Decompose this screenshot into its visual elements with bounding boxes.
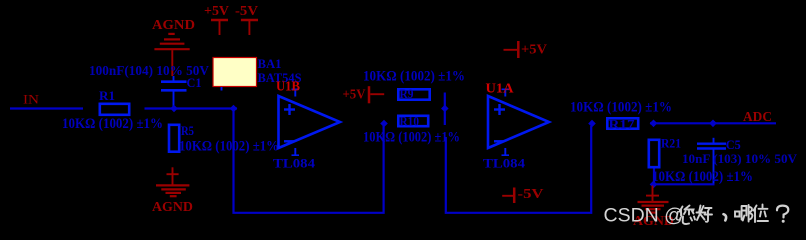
svg-text:10KΩ (1002) ±1%: 10KΩ (1002) ±1% [652, 169, 753, 185]
svg-text:10nF (103) 10% 50V: 10nF (103) 10% 50V [682, 151, 798, 166]
power port AGND (top) [154, 34, 189, 76]
svg-text:10KΩ (1002) ±1%: 10KΩ (1002) ±1% [570, 100, 672, 116]
glyph fullwidth comma [724, 214, 727, 220]
svg-text:TL084: TL084 [273, 155, 316, 170]
power port AGND (bottom right) [638, 186, 669, 213]
svg-text:10KΩ (1002) ±1%: 10KΩ (1002) ±1% [62, 116, 163, 132]
svg-text:IN: IN [23, 92, 40, 107]
wire U1A output to ADC [650, 122, 776, 124]
svg-text:AGND: AGND [152, 200, 193, 215]
junction at feedback tap [230, 105, 238, 113]
power port +5V (top) [211, 20, 228, 35]
svg-text:R9: R9 [400, 86, 414, 101]
wire R9 right to R10 right [444, 93, 446, 126]
junction U1B output [380, 120, 388, 128]
svg-text:C1: C1 [187, 75, 202, 90]
glyph hao [697, 206, 706, 221]
wire R21 bottom stub [653, 169, 655, 184]
junction U1A output [588, 120, 596, 128]
svg-text:10KΩ (1002) ±1%: 10KΩ (1002) ±1% [363, 69, 465, 85]
svg-text:AGND: AGND [152, 18, 195, 33]
junction at ground node [650, 181, 658, 189]
svg-text:R21: R21 [661, 136, 681, 151]
wire R1 to opamp [145, 107, 238, 109]
wire U1A feedback: down, across, up [446, 126, 591, 213]
svg-text:R5: R5 [181, 123, 194, 138]
svg-text:BA1: BA1 [258, 56, 282, 71]
svg-text:R10: R10 [400, 113, 420, 128]
svg-text:U1A: U1A [486, 81, 514, 96]
op-amp U1B [279, 89, 341, 156]
svg-text:+5V: +5V [204, 4, 229, 19]
power port AGND (below R5) [156, 167, 189, 196]
watermark CSDN [604, 205, 789, 227]
resistor R10 [398, 116, 428, 126]
power port -5V (top) [241, 20, 258, 35]
junction on R9/R10 wire [441, 105, 449, 113]
wire IN [10, 107, 83, 109]
resistor R5 [169, 125, 179, 152]
power port +5V (mid, near U1B) [369, 86, 384, 103]
resistor R17 [607, 118, 638, 128]
diode BA1 BAT54S (yellow body) [213, 58, 257, 91]
glyph fullwidth question [777, 206, 788, 218]
capacitor C5 [697, 138, 726, 185]
svg-text:TL084: TL084 [483, 155, 526, 170]
power port -5V (below U1A) [502, 188, 514, 204]
svg-text:R1: R1 [99, 88, 115, 103]
junction at R21 tap [650, 120, 658, 128]
junction at C5 tap [709, 120, 717, 128]
power port +5V (above U1A) [504, 41, 519, 58]
glyph nin [680, 206, 694, 216]
svg-text:C5: C5 [726, 137, 741, 152]
svg-text:ADC: ADC [743, 110, 772, 125]
resistor R9 [398, 89, 429, 99]
glyph wei [754, 205, 769, 223]
svg-text:U1B: U1B [276, 78, 300, 93]
svg-text:R17: R17 [609, 116, 636, 131]
svg-text:+5V: +5V [521, 42, 547, 57]
wire C5 ground run [654, 183, 715, 185]
resistor R21 [649, 140, 659, 167]
capacitor C1 [161, 76, 187, 109]
wire U1B feedback: down, across, up [234, 109, 384, 213]
svg-text:+5V: +5V [343, 86, 366, 101]
svg-text:-5V: -5V [518, 186, 544, 201]
svg-text:-5V: -5V [235, 4, 258, 19]
resistor R1 [100, 104, 129, 115]
glyph na [735, 206, 746, 221]
svg-text:CSDN @: CSDN @ [604, 205, 684, 227]
junction at C1/R5 tap [170, 105, 178, 113]
svg-text:10KΩ (1002) ±1%: 10KΩ (1002) ±1% [179, 138, 279, 154]
op-amp U1A [488, 89, 549, 156]
